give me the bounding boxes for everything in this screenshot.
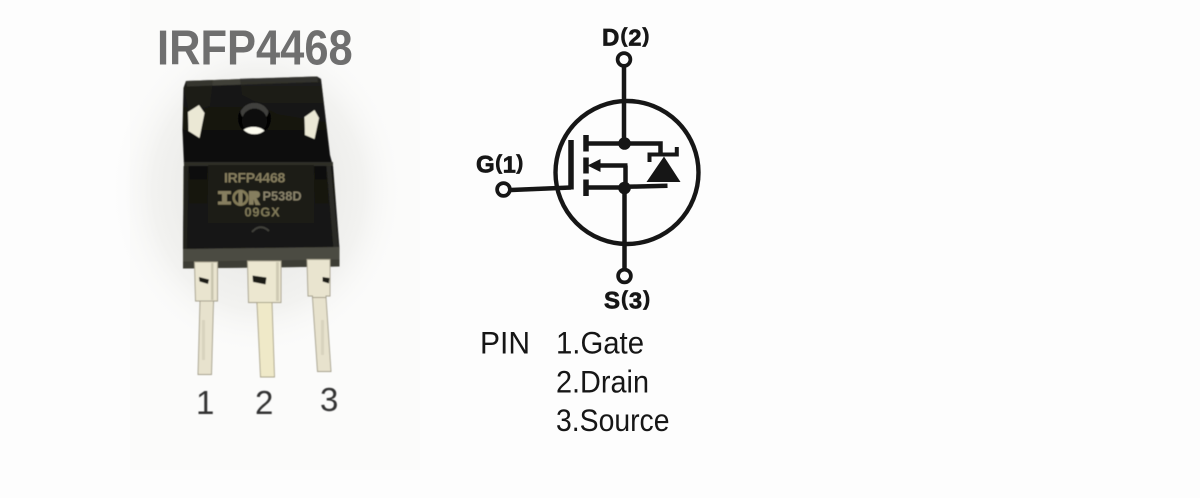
wire source to diode branch — [625, 186, 668, 187]
transistor photo: marking zone — [208, 165, 314, 223]
svg-text:2.Drain: 2.Drain — [556, 363, 649, 399]
svg-text:3: 3 — [320, 381, 338, 418]
transistor photo: top edge highlight — [186, 77, 318, 87]
transistor photo: bottom band — [183, 247, 340, 269]
wire drain stub — [588, 141, 625, 146]
drain terminal — [618, 53, 631, 66]
marking scratch — [252, 227, 269, 232]
svg-text:S(3): S(3) — [604, 288, 651, 315]
wire gate — [511, 188, 571, 191]
transistor photo: mounting hole — [238, 102, 271, 135]
transistor photo: hole light crescent — [240, 127, 266, 144]
svg-text:09GX: 09GX — [245, 205, 281, 220]
gate terminal — [497, 183, 510, 196]
channel segment body — [583, 158, 589, 174]
channel segment drain — [583, 135, 589, 152]
wire drain to diode branch — [625, 144, 661, 157]
svg-text:IRFP4468: IRFP4468 — [157, 20, 353, 75]
body arrow wire — [599, 163, 628, 168]
svg-text:1: 1 — [196, 384, 214, 421]
svg-text:P538D: P538D — [263, 189, 302, 204]
transistor photo: left corner notch — [188, 105, 205, 138]
diode D1 triangle — [647, 157, 681, 183]
diode D1 cathode bar — [650, 147, 677, 162]
wire drain terminal to node — [622, 67, 627, 142]
svg-text:D(2): D(2) — [602, 25, 650, 52]
leg 2 — [248, 261, 282, 377]
source terminal — [618, 270, 631, 283]
body arrow head — [588, 159, 601, 172]
channel segment source — [583, 180, 589, 197]
transistor photo: hole chamfer reflection — [241, 100, 269, 123]
transistor photo: right rivet dot — [303, 147, 313, 157]
node drain junction — [618, 137, 631, 150]
svg-text:PIN: PIN — [480, 325, 530, 361]
photo background wash — [130, 0, 420, 470]
svg-text:G(1): G(1) — [476, 152, 524, 179]
marking IR logo — [218, 190, 261, 206]
transistor photo: plastic body — [183, 166, 340, 249]
transistor photo: metal tab — [183, 77, 334, 167]
svg-text:IRFP4468: IRFP4468 — [224, 170, 285, 186]
transistor photo: tab/body ridge — [184, 162, 333, 166]
wire body to source node — [623, 166, 628, 189]
transistor photo: left rivet dot — [202, 146, 212, 156]
node source junction — [618, 182, 631, 195]
wire source vertical — [622, 188, 627, 269]
leg 3 — [307, 260, 331, 372]
MOSFET body circle U1 — [556, 101, 699, 244]
svg-text:2: 2 — [255, 384, 273, 421]
wire source stub — [588, 185, 625, 190]
svg-text:1.Gate: 1.Gate — [556, 325, 644, 361]
svg-text:3.Source: 3.Source — [556, 402, 670, 438]
leg 1 — [195, 262, 218, 375]
transistor photo: right corner notch — [305, 110, 320, 139]
gate electrode bar — [568, 140, 574, 190]
